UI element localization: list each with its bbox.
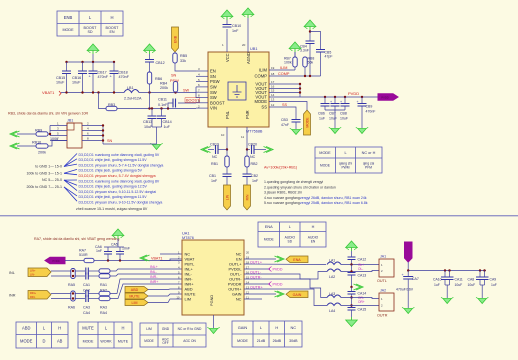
node LA4 junction <box>350 304 352 306</box>
svg-text:21dB: 21dB <box>257 339 266 343</box>
wire PVDD rail <box>300 96 378 98</box>
port PVDD arrow into RA7 <box>45 257 65 263</box>
svg-text:H: H <box>122 326 125 331</box>
capacitor CA4 <box>86 295 89 302</box>
wire INR- line <box>51 293 85 295</box>
svg-text:ENB: ENB <box>173 35 177 43</box>
capacitor CB9 on rail <box>361 97 363 104</box>
resistor RB6 <box>147 72 151 84</box>
wire ILIM stub <box>269 69 295 71</box>
capacitor CA1 <box>86 268 89 275</box>
svg-text:D3,D2,D1 yinyuan shuru, 5-7.4V: D3,D2,D1 yinyuan shuru, 5-7.4V dongtai s… <box>79 174 156 178</box>
wire RA1 to INL+ pin <box>110 269 182 271</box>
svg-text:PVDD: PVDD <box>348 91 359 96</box>
svg-text:zengyi 25dB, dandun shuru, RB1: zengyi 25dB, dandun shuru, RB1 xuan 6.8k <box>300 201 368 205</box>
tag INR connector <box>28 291 51 300</box>
svg-text:PNL: PNL <box>225 110 230 119</box>
node RA5 junctions <box>72 270 74 272</box>
svg-text:H: H <box>58 326 61 331</box>
svg-text:5.ruo xuanze gongfang: 5.ruo xuanze gongfang <box>264 201 300 205</box>
svg-text:PSW: PSW <box>210 79 220 84</box>
svg-text:PVDD: PVDD <box>381 95 388 99</box>
inductor LB1 <box>124 90 139 93</box>
svg-text:CB17: CB17 <box>98 71 107 75</box>
capacitor CA9 <box>484 271 486 278</box>
node VBAT rail junctions <box>107 259 109 261</box>
svg-text:VBAT1: VBAT1 <box>42 90 55 95</box>
svg-text:12: 12 <box>271 103 275 107</box>
resistor RB5 <box>174 52 176 53</box>
wire VBAT stem <box>92 54 94 62</box>
svg-text:10uF: 10uF <box>455 283 463 287</box>
power arrow VCC <box>221 10 233 20</box>
wire CA4 to RA4 <box>88 298 99 300</box>
node LA1 junction <box>350 263 352 265</box>
UB1 internal block <box>228 82 246 100</box>
svg-text:RB1: RB1 <box>211 162 218 166</box>
svg-text:ABD: ABD <box>131 288 139 292</box>
inductor LA2 <box>327 269 341 272</box>
capacitor CB8 on rail <box>344 97 346 104</box>
capacitor CB17 <box>89 71 98 74</box>
resistor RB1 <box>226 150 228 157</box>
tag PVDD vertical purple <box>405 242 413 262</box>
connector JA1 body <box>379 259 394 277</box>
svg-text:MODE: MODE <box>305 117 309 128</box>
svg-text:CA1: CA1 <box>83 283 90 287</box>
svg-text:NC or R to GND: NC or R to GND <box>178 327 202 331</box>
capacitor CB11 <box>173 99 176 108</box>
svg-text:10uF: 10uF <box>329 117 337 121</box>
inductor LA4 <box>327 303 341 306</box>
svg-text:26dB: 26dB <box>273 339 282 343</box>
power arrow above CA12 <box>346 241 358 251</box>
svg-text:10uF: 10uF <box>340 117 348 121</box>
svg-text:zengyi 26dB, dandun shuru, RB1: zengyi 26dB, dandun shuru, RB1 xuan 24k <box>300 196 367 200</box>
svg-text:CA12: CA12 <box>358 258 367 262</box>
svg-text:15: 15 <box>271 89 275 93</box>
svg-text:1nF: 1nF <box>232 29 239 33</box>
wire bottom PVDD rail <box>408 270 486 272</box>
svg-text:D3,D2,D1 zhijie jiedi, guding: D3,D2,D1 zhijie jiedi, guding shengya 11… <box>79 158 148 162</box>
svg-text:UA1: UA1 <box>182 231 190 236</box>
svg-text:LIM: LIM <box>146 327 152 331</box>
tag MUTE <box>125 293 148 299</box>
power arrow above CA5 CA6 <box>112 229 124 239</box>
svg-text:100k: 100k <box>284 61 292 65</box>
JB1 left pins 1 3 5 7 <box>50 125 67 127</box>
svg-text:CA15: CA15 <box>358 308 367 312</box>
resistor RA4 <box>99 296 110 300</box>
capacitor CB14 <box>161 109 163 117</box>
svg-text:2.2uH/12A: 2.2uH/12A <box>124 97 142 101</box>
wire COMP line <box>269 75 321 77</box>
svg-text:CA8: CA8 <box>468 278 475 282</box>
wire PGND to ground <box>213 315 215 328</box>
wire JB1 right bus <box>102 126 104 145</box>
port PVDD arrow <box>378 94 398 100</box>
capacitor CA10 <box>444 271 446 278</box>
wire power to cap top rail <box>117 239 119 247</box>
svg-text:JB1: JB1 <box>67 119 73 123</box>
port RB9 input <box>10 131 20 137</box>
svg-text:SN: SN <box>107 139 113 143</box>
svg-text:20: 20 <box>246 250 250 254</box>
capacitor CA13 <box>348 273 356 276</box>
capacitor CA2 <box>86 273 89 280</box>
resistor RB9 <box>36 132 48 136</box>
node PVDD rail junctions <box>324 96 326 98</box>
resistor RB4 <box>173 82 177 92</box>
svg-text:RB3, shide dai da dianliu shi,: RB3, shide dai da dianliu shi, shi VIN g… <box>8 112 89 116</box>
svg-text:SD: SD <box>288 239 293 243</box>
svg-text:RB4: RB4 <box>160 82 167 86</box>
capacitor CB16 <box>78 71 87 74</box>
power VBAT arrow <box>87 44 99 54</box>
svg-text:SD: SD <box>87 30 92 34</box>
svg-text:RIN: RIN <box>245 194 249 200</box>
svg-text:GAIN: GAIN <box>238 325 248 330</box>
wire VBAT1 to pin <box>160 259 182 261</box>
UB1 bottom pin PNL <box>226 127 228 150</box>
ground below CA7 <box>402 307 414 313</box>
resistor RA3 <box>99 291 110 295</box>
wire OUTR+ net <box>244 289 327 306</box>
JB1 right pins 2 4 6 8 <box>82 125 103 127</box>
UB1 top pin VCC <box>226 17 228 24</box>
svg-text:COMP: COMP <box>278 72 290 76</box>
svg-text:CB14: CB14 <box>163 120 172 124</box>
port EN chevron <box>275 256 285 262</box>
divider line between sections <box>0 215 518 217</box>
wire MODE stub <box>269 102 307 111</box>
table ENB mode truth table <box>57 11 123 36</box>
wire CA12 to CA13 <box>351 265 353 273</box>
resistor RB7 <box>294 52 296 57</box>
wire ABD to pin <box>148 288 182 291</box>
svg-text:10uF: 10uF <box>56 81 65 85</box>
node CA13 bottom junction <box>350 286 352 288</box>
svg-text:LIM: LIM <box>132 301 138 305</box>
capacitor CB18 <box>110 71 119 74</box>
svg-text:MUTE: MUTE <box>118 340 129 344</box>
svg-text:CA4: CA4 <box>83 311 90 315</box>
capacitor CB13 <box>151 109 153 117</box>
UB1 bottom pin PNR <box>246 127 248 150</box>
svg-text:17: 17 <box>271 80 275 84</box>
wire CA8 CA9 join <box>480 284 485 286</box>
UB1 left pins EN SN PSW SW SW SW BOOST VIN <box>196 70 208 72</box>
svg-text:CA2: CA2 <box>83 288 90 292</box>
svg-text:JA1: JA1 <box>380 255 386 259</box>
svg-text:3.3nF: 3.3nF <box>300 49 309 53</box>
tag LIN vertical <box>224 185 231 210</box>
svg-text:1uF: 1uF <box>319 117 325 121</box>
capacitor CB7 on rail <box>334 97 336 104</box>
svg-text:CB12: CB12 <box>156 61 165 65</box>
svg-text:LIM: LIM <box>185 297 192 302</box>
svg-text:NC: NC <box>212 155 218 159</box>
svg-text:MUTE: MUTE <box>82 326 94 331</box>
svg-text:4.ruo xuanze gongfang: 4.ruo xuanze gongfang <box>264 196 300 200</box>
svg-text:JA2: JA2 <box>380 289 386 293</box>
port RB10 input <box>10 143 20 149</box>
svg-text:10uF: 10uF <box>144 125 153 129</box>
node PNR junction <box>246 148 248 150</box>
svg-text:LIN: LIN <box>225 194 229 200</box>
svg-text:RB5: RB5 <box>180 54 187 58</box>
wire CA13 to CA14 <box>351 287 353 292</box>
capacitor CA11 <box>449 271 451 278</box>
svg-text:D3,D2,D1 xuankong ouhe dianron: D3,D2,D1 xuankong ouhe dianrong xiadi, g… <box>79 179 160 183</box>
svg-text:H: H <box>312 225 315 229</box>
wire CB6-8 join to ground <box>325 109 345 111</box>
net PVDDL label <box>269 267 272 272</box>
svg-text:LA3: LA3 <box>329 292 335 296</box>
svg-text:CB2: CB2 <box>251 174 258 178</box>
svg-text:to GND 1— 15-0: to GND 1— 15-0 <box>35 165 62 169</box>
capacitor CB4 <box>306 41 315 44</box>
svg-text:CB1: CB1 <box>209 174 216 178</box>
svg-text:PVDD: PVDD <box>273 268 283 272</box>
resistor RB3 <box>106 106 117 110</box>
node VBAT bus junctions <box>65 91 67 93</box>
svg-text:LA2: LA2 <box>329 275 335 279</box>
svg-text:SS: SS <box>282 103 288 107</box>
svg-text:RA1: RA1 <box>100 283 107 287</box>
svg-text:EN: EN <box>109 30 114 34</box>
svg-text:MODE: MODE <box>254 99 267 104</box>
svg-text:CA9: CA9 <box>490 278 497 282</box>
svg-text:OFF: OFF <box>162 341 168 345</box>
table ENA audio enable <box>258 222 326 247</box>
table ABD mode <box>16 322 68 348</box>
svg-text:MT876: MT876 <box>182 236 194 240</box>
wire arrow to RA7 <box>65 260 84 262</box>
power arrow above CB4 <box>304 20 316 30</box>
svg-text:18: 18 <box>271 72 275 76</box>
wire CA10 CA11 join <box>445 284 450 286</box>
node RA6 junctions <box>72 292 74 294</box>
svg-text:ENA: ENA <box>293 258 301 262</box>
svg-text:SW: SW <box>210 95 217 100</box>
ground below CB9 <box>356 127 368 133</box>
svg-text:LIN-: LIN- <box>30 272 35 276</box>
svg-text:19: 19 <box>271 66 275 70</box>
svg-text:D3,D2,D1 zhijie jiedi, guding: D3,D2,D1 zhijie jiedi, guding shengya 5V <box>79 169 143 173</box>
wire EN stub <box>244 258 276 260</box>
svg-text:INL-: INL- <box>150 270 158 274</box>
wire LB1 to SW bus <box>139 92 196 94</box>
svg-text:1uF: 1uF <box>491 283 497 287</box>
wire VBAT rail bottom <box>94 260 182 262</box>
svg-text:RB10: RB10 <box>32 141 41 145</box>
svg-text:+: + <box>340 100 342 104</box>
svg-text:WORK: WORK <box>100 340 112 344</box>
wire LA4 out <box>341 305 379 307</box>
svg-text:470nF: 470nF <box>119 75 130 79</box>
svg-text:OL-: OL- <box>358 267 363 271</box>
UB1 top pin AGND <box>247 15 249 52</box>
svg-text:D3,D2,D1 yinyuan shuru, 9-10-1: D3,D2,D1 yinyuan shuru, 9-10-11.5V dongt… <box>79 201 163 205</box>
svg-text:SN: SN <box>171 74 177 78</box>
svg-text:RB6: RB6 <box>155 77 162 81</box>
svg-text:20: 20 <box>242 43 246 47</box>
svg-text:MUTE: MUTE <box>129 295 140 299</box>
svg-text:ABD: ABD <box>22 326 30 331</box>
svg-text:CB6: CB6 <box>318 112 325 116</box>
ground below CB13 CB14 <box>150 143 162 149</box>
port NC right of CB20 <box>264 147 274 153</box>
wire RB9 to JB1 <box>48 133 50 135</box>
wire RA2 to INL- pin <box>110 274 182 276</box>
svg-text:ENB: ENB <box>64 15 73 20</box>
svg-text:NC 5— 25-0: NC 5— 25-0 <box>42 178 62 182</box>
svg-text:CB10: CB10 <box>232 24 241 28</box>
svg-text:1nF: 1nF <box>252 179 259 183</box>
ground below CB3 <box>290 128 302 134</box>
svg-text:OUTR+: OUTR+ <box>250 285 263 289</box>
wire PVDD tag stem <box>407 262 409 271</box>
svg-text:CB15: CB15 <box>56 76 65 80</box>
svg-text:1nF: 1nF <box>96 249 102 253</box>
capacitor CA3 <box>86 290 89 297</box>
wire OUTL- net <box>244 272 327 280</box>
svg-text:AB: AB <box>57 339 63 344</box>
svg-text:GND: GND <box>162 327 170 331</box>
svg-text:SW: SW <box>210 85 217 90</box>
svg-text:NC or H: NC or H <box>362 151 376 155</box>
power arrow down below CA15 <box>346 317 358 327</box>
svg-text:RB9: RB9 <box>35 129 42 133</box>
svg-text:CB16: CB16 <box>72 76 81 80</box>
svg-text:PFM: PFM <box>365 166 372 170</box>
table GAIN settings <box>232 321 302 347</box>
svg-text:D3,D2,D1 zhijie jiedi, guding: D3,D2,D1 zhijie jiedi, guding shengya 11… <box>79 195 148 199</box>
svg-text:33k: 33k <box>180 59 186 63</box>
svg-text:OUTL+: OUTL+ <box>250 260 262 264</box>
node PNL junction <box>226 148 228 150</box>
svg-text:30dB: 30dB <box>289 339 298 343</box>
wire OUTR- net <box>244 279 327 298</box>
svg-text:SW: SW <box>210 90 217 95</box>
capacitor CA6 <box>107 247 109 252</box>
tag ENB vertical <box>172 27 179 52</box>
svg-text:INR: INR <box>9 294 16 298</box>
svg-text:RA7: RA7 <box>79 249 86 253</box>
resistor RA7 <box>84 258 94 262</box>
svg-text:56k: 56k <box>308 61 314 65</box>
svg-text:470uF/16V: 470uF/16V <box>396 288 414 292</box>
svg-text:CA11: CA11 <box>455 278 463 282</box>
svg-text:47pF: 47pF <box>325 55 333 59</box>
svg-text:MT7568B: MT7568B <box>246 130 263 134</box>
svg-text:2.queding yinyuan shuru shi ch: 2.queding yinyuan shuru shi chafen or da… <box>264 185 336 189</box>
svg-text:CA13: CA13 <box>358 274 367 278</box>
svg-text:INL+: INL+ <box>150 265 158 269</box>
svg-text:RIN-: RIN- <box>30 295 35 299</box>
resistor RA1 <box>99 269 110 273</box>
resistor RB8 <box>303 57 307 67</box>
svg-text:+: + <box>330 100 332 104</box>
wire CA3 to RA3 <box>88 293 99 295</box>
resistor RA2 <box>99 274 110 278</box>
svg-text:200k: 200k <box>38 151 46 155</box>
node VIN line junctions <box>148 107 150 109</box>
node bottom rail junctions <box>407 269 409 271</box>
svg-text:RA5: RA5 <box>68 283 75 287</box>
svg-text:10uF: 10uF <box>72 81 81 85</box>
svg-text:INL: INL <box>9 271 15 275</box>
capacitor CB6 on rail <box>324 97 326 104</box>
node JB1 right bus junctions <box>102 124 104 126</box>
svg-text:BOOST: BOOST <box>210 100 225 105</box>
svg-text:CA3: CA3 <box>83 306 90 310</box>
capacitor CB3 <box>292 120 301 123</box>
svg-text:H: H <box>110 15 113 20</box>
wire cap join to ground <box>152 126 162 128</box>
svg-text:1uF: 1uF <box>434 283 440 287</box>
svg-text:47nF: 47nF <box>281 123 289 127</box>
port VBAT1 chevron <box>140 255 150 261</box>
svg-text:D3,D2,D1 yinyuan shuru, 9-10-1: D3,D2,D1 yinyuan shuru, 9-10-11.5-12.5V … <box>79 190 157 194</box>
svg-text:OUTR-: OUTR- <box>250 275 262 279</box>
capacitor CB20 <box>247 149 250 151</box>
net PVDDR label <box>269 282 272 287</box>
svg-text:1uF: 1uF <box>164 125 171 129</box>
resistor RB3 branch wire <box>99 93 107 109</box>
ground below UA1 <box>207 327 219 333</box>
tag MODE vertical <box>304 110 311 135</box>
svg-text:CB3: CB3 <box>281 118 288 122</box>
capacitor CA12 <box>348 257 356 260</box>
svg-text:RA6: RA6 <box>68 306 75 310</box>
table LIM agc <box>140 323 206 347</box>
resistor RB10 <box>36 144 48 148</box>
wire CA1 to RA1 <box>88 270 99 272</box>
svg-text:D3,D2,D1 zhijie jiedi, guding: D3,D2,D1 zhijie jiedi, guding shengya 12… <box>79 185 148 189</box>
svg-text:MODE: MODE <box>320 164 331 168</box>
svg-text:13: 13 <box>271 98 275 102</box>
svg-text:AGND: AGND <box>246 52 251 64</box>
wire LA3 out <box>341 298 379 299</box>
tag ABD <box>125 287 148 293</box>
svg-text:200k to GND 7— 25-1: 200k to GND 7— 25-1 <box>26 185 62 189</box>
svg-text:MODE: MODE <box>319 151 331 155</box>
capacitor CA14 <box>348 292 356 295</box>
svg-text:1nF: 1nF <box>211 179 218 183</box>
port mid chevron <box>354 284 364 290</box>
svg-text:11: 11 <box>241 135 244 139</box>
svg-text:SN: SN <box>210 74 216 79</box>
svg-text:PWM: PWM <box>341 166 349 170</box>
svg-text:100k to GND 3— 15-1: 100k to GND 3— 15-1 <box>26 171 62 175</box>
svg-text:CB20: CB20 <box>248 143 257 147</box>
svg-text:0.1nF: 0.1nF <box>158 103 168 107</box>
svg-text:Av=100k/(20k+RB1): Av=100k/(20k+RB1) <box>264 166 297 170</box>
svg-text:SW: SW <box>183 88 190 92</box>
wire RB10 to JB1 <box>48 141 67 147</box>
wire INL+ line <box>51 270 85 272</box>
wire RB5 to EN pin <box>175 63 196 71</box>
svg-text:VCC: VCC <box>225 53 230 62</box>
svg-text:470nF: 470nF <box>98 75 109 79</box>
capacitor CB15 <box>62 71 71 74</box>
svg-text:CB8: CB8 <box>340 112 347 116</box>
wire CB4 top junction <box>309 30 311 41</box>
svg-text:MODE: MODE <box>20 339 33 344</box>
svg-text:200k: 200k <box>160 86 168 90</box>
